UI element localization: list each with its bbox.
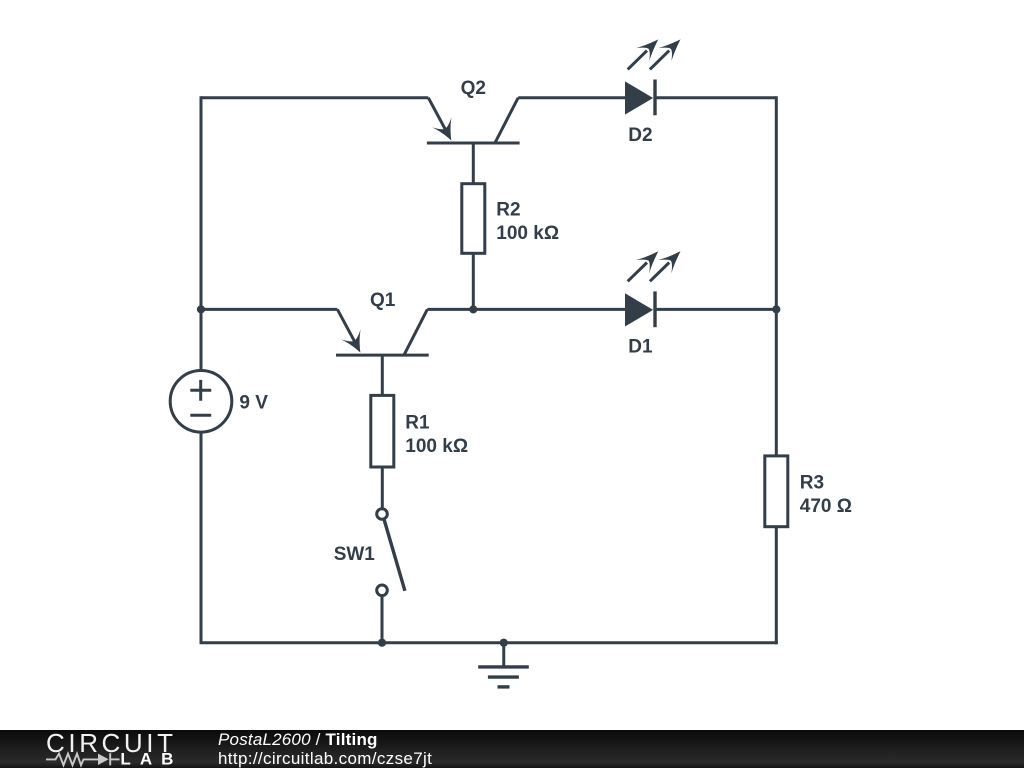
svg-text:LAB: LAB: [120, 750, 173, 768]
svg-text:SW1: SW1: [334, 544, 376, 565]
resistor R2: [462, 184, 485, 254]
footer bar: [0, 730, 1024, 768]
wire: left rail bottom (V1 bottom to bottom-left corner): [200, 432, 203, 643]
svg-text:Q2: Q2: [461, 78, 486, 99]
wire: D1 cathode to right rail: [657, 308, 777, 311]
wire: SW1 bottom to bottom rail: [381, 597, 384, 643]
svg-text:R2: R2: [496, 200, 520, 221]
ground: [478, 643, 529, 687]
node: ground junction: [500, 639, 508, 647]
transistor Q1 (PNP): [336, 309, 429, 357]
voltage source V1 9V: [170, 371, 232, 433]
resistor R3: [765, 456, 788, 527]
CircuitLab logo wordmark: [46, 728, 173, 768]
LED D2: [625, 33, 687, 116]
wire: Q1 collector to D1 anode: [427, 308, 625, 311]
svg-text:D1: D1: [628, 337, 653, 358]
wire: R1 bottom to SW1 top: [381, 467, 384, 508]
wire: Q2 base to R2 top: [472, 143, 475, 184]
wire: R2 bottom to node at D1 row: [472, 253, 475, 309]
resistor R1: [371, 395, 394, 467]
svg-text:9 V: 9 V: [239, 393, 268, 414]
svg-text:100 kΩ: 100 kΩ: [496, 223, 559, 244]
wire: D2 cathode to top-right corner: [657, 96, 777, 99]
wire: right rail bottom (R3 to bottom-right corner): [775, 527, 778, 645]
svg-text:D2: D2: [628, 125, 652, 146]
wire: bottom rail: [200, 641, 778, 644]
wire: right rail top (top-right corner to R3): [775, 96, 778, 456]
wire: node B1 to Q1 emitter: [201, 308, 337, 311]
wire: left rail top (corner to V1 top): [200, 96, 203, 371]
svg-text:R3: R3: [800, 473, 824, 494]
wire: Q1 base to R1 top: [381, 355, 384, 395]
svg-text:R1: R1: [405, 412, 430, 433]
wire: top rail from V1 top corner to Q2 emitter: [201, 96, 428, 99]
svg-text:100 kΩ: 100 kΩ: [405, 436, 468, 457]
wire: Q2 collector to D2 anode: [518, 96, 625, 99]
svg-text:470 Ω: 470 Ω: [800, 496, 852, 517]
node: R2 bottom / D1 row junction: [469, 305, 477, 313]
node: SW1 / bottom rail junction: [378, 639, 386, 647]
svg-text:PostaL2600 / Tilting: PostaL2600 / Tilting: [218, 730, 378, 749]
switch SW1: [377, 509, 405, 596]
svg-text:http://circuitlab.com/czse7jt: http://circuitlab.com/czse7jt: [218, 749, 432, 768]
CircuitLab logo resistor-diode glyph: [46, 753, 120, 765]
transistor Q2 (PNP): [427, 98, 520, 146]
LED D1: [625, 245, 687, 328]
svg-text:Q1: Q1: [370, 290, 396, 311]
node: V1+ / Q1 emitter junction: [197, 305, 205, 313]
node: D1 cathode / right rail junction: [772, 305, 780, 313]
